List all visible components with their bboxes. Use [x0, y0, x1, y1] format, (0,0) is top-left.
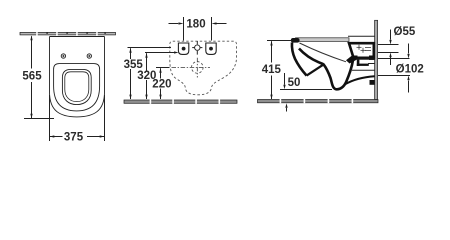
svg-text:180: 180 — [186, 18, 205, 30]
svg-text:Ø102: Ø102 — [396, 63, 424, 75]
svg-text:375: 375 — [64, 132, 84, 144]
svg-text:415: 415 — [262, 64, 282, 76]
svg-text:220: 220 — [152, 79, 171, 91]
svg-text:50: 50 — [288, 77, 301, 89]
svg-text:565: 565 — [22, 71, 42, 83]
svg-text:Ø55: Ø55 — [394, 26, 416, 38]
svg-text:355: 355 — [124, 59, 144, 71]
